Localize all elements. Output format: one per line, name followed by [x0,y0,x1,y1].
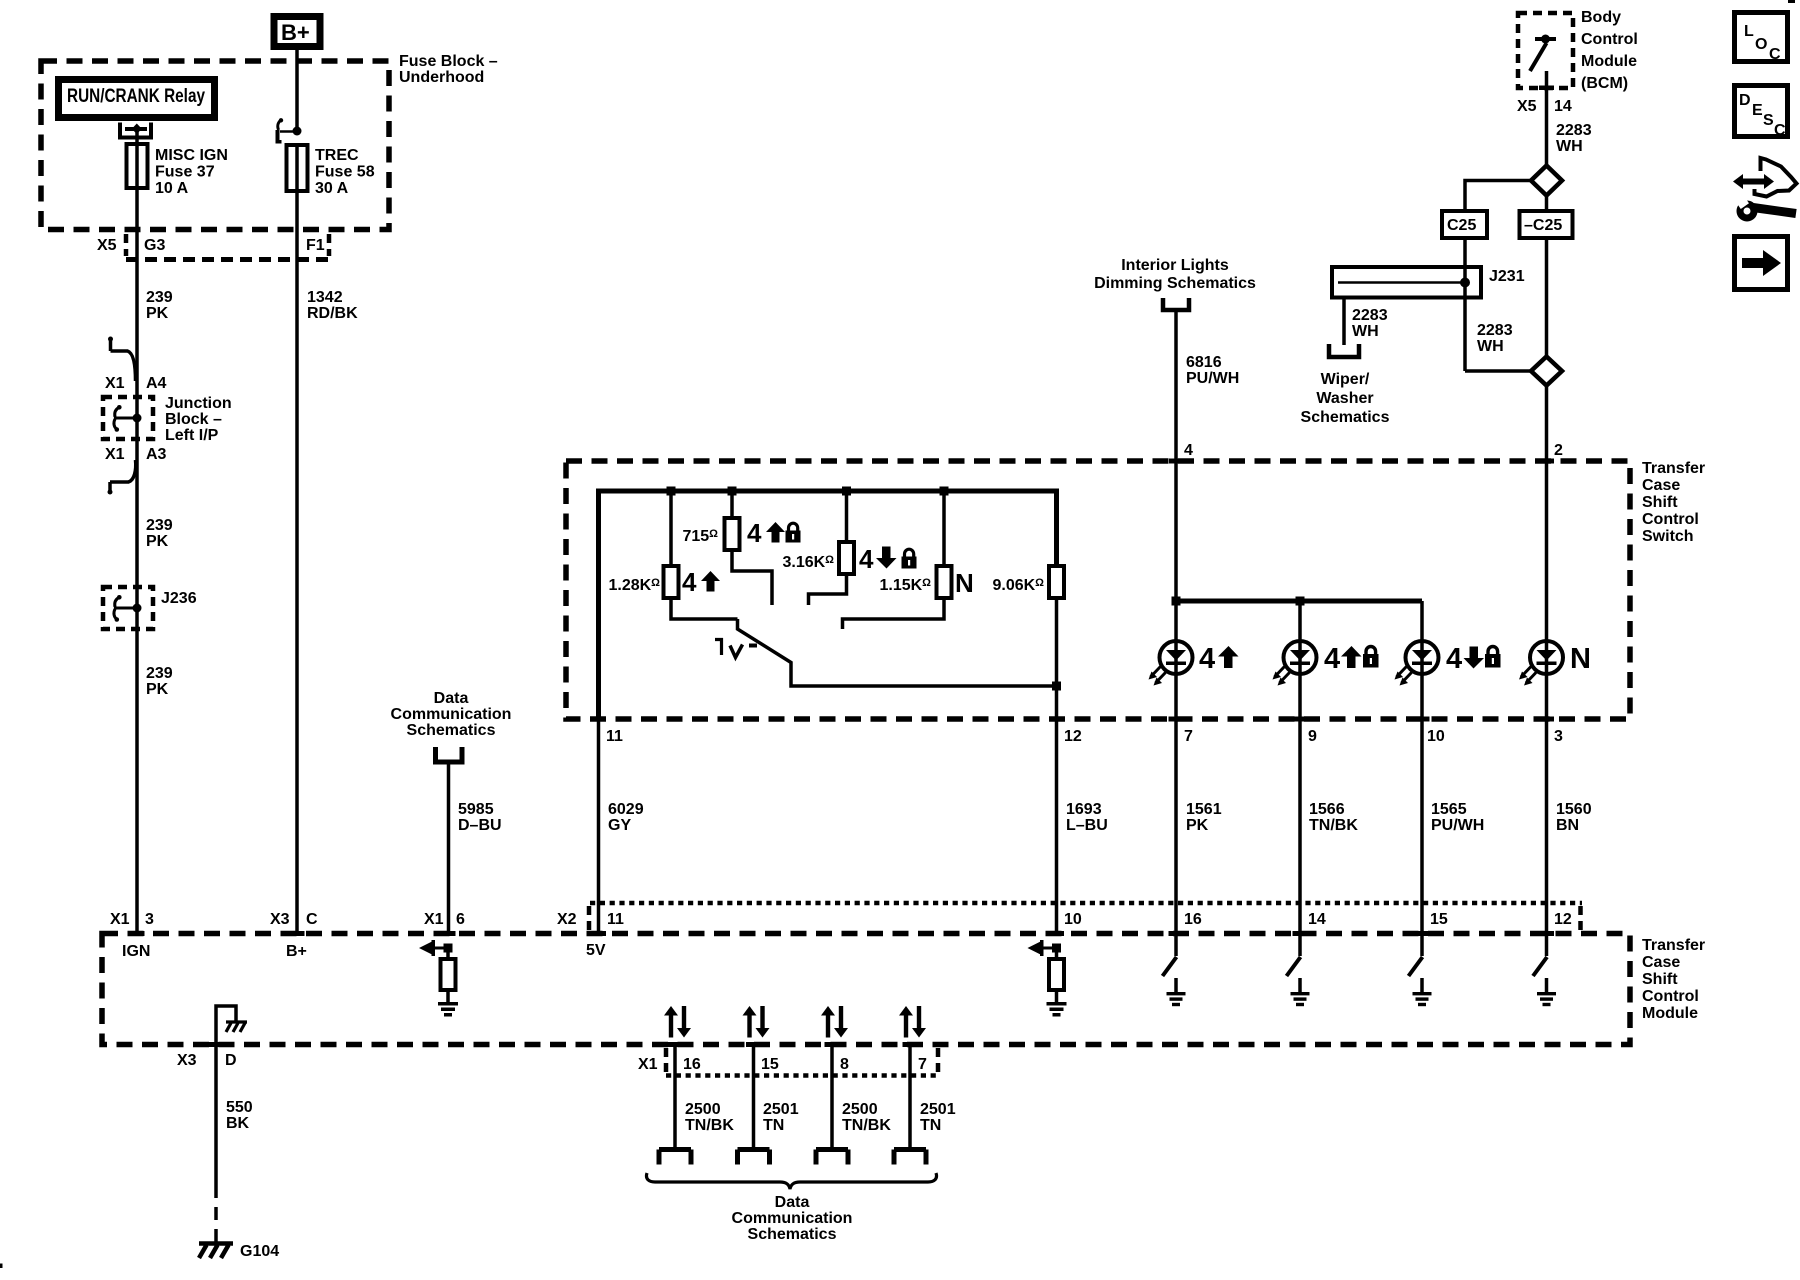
wire below 9.06K [1055,598,1059,686]
svg-text:O: O [1755,36,1767,53]
pin tick 2 [1539,459,1554,464]
splice J236 dashed box [103,587,153,629]
svg-text:Fuse Block –: Fuse Block – [399,53,498,70]
node dot R4 [940,487,949,496]
wire: 550 BK ground wire [214,1044,218,1185]
svg-text:Control: Control [1642,988,1699,1005]
node dot wiper output [1052,682,1061,691]
svg-text:Block –: Block – [165,411,222,428]
svg-text:A4: A4 [146,375,167,392]
svg-text:4: 4 [1199,643,1215,675]
svg-text:16: 16 [1184,911,1202,928]
svg-text:MISC IGN: MISC IGN [155,147,228,164]
wire: B+ down to fuse block [295,50,299,131]
svg-text:Washer: Washer [1316,390,1373,407]
corner artifact mark bottom-left [0,1264,3,1269]
svg-text:7: 7 [918,1056,927,1073]
tick right of pin 7 [936,1048,941,1074]
fuse F58 TREC [287,145,308,191]
svg-text:12: 12 [1064,728,1082,745]
resistor bus top [599,491,1057,719]
BCM dashed box [1518,13,1573,88]
pin tick X2-10 [1049,931,1064,936]
branch wire to R 715 [730,491,734,518]
X1 connector sub-line (bottom) [666,1073,938,1078]
resistor 1.28K [664,566,679,598]
svg-text:TN: TN [763,1117,784,1134]
svg-text:Wiper/: Wiper/ [1321,371,1370,388]
svg-text:Switch: Switch [1642,528,1694,545]
svg-text:2: 2 [1554,442,1563,459]
pin tick 4 [1169,459,1184,464]
svg-text:3: 3 [145,911,154,928]
relay RUN/CRANK [59,80,215,118]
svg-text:239: 239 [146,517,173,534]
resistor 1.15K [937,566,952,598]
pin tick 12 [1049,717,1064,722]
pin tick 3 [1539,717,1554,722]
svg-text:11: 11 [607,911,624,928]
wire: J231 tap down to wiper/washer [1342,297,1346,345]
svg-text:14: 14 [1308,911,1326,928]
icon arrow box [1735,237,1788,290]
svg-text:X1: X1 [110,911,130,928]
wire: data comm to module X1-6 [447,762,451,935]
svg-text:X1: X1 [638,1056,658,1073]
svg-text:Module: Module [1642,1005,1698,1022]
svg-text:Data: Data [434,690,469,707]
svg-text:D–BU: D–BU [458,817,502,834]
svg-text:1560: 1560 [1556,801,1592,818]
TREC feed terminal hook [276,118,302,143]
svg-text:X5: X5 [1517,98,1537,115]
pin tick X2-14 [1293,931,1308,936]
svg-text:D: D [225,1052,237,1069]
svg-text:Body: Body [1581,9,1621,26]
signal ground (1693 internal) [1047,1002,1067,1017]
data wire 1 (2500 TN/BK) [659,1006,691,1165]
connector -C25 [1520,211,1573,238]
svg-text:10: 10 [1064,911,1082,928]
node dot LED bus left [1172,597,1181,606]
pin tick X2-12 [1539,931,1554,936]
svg-text:9: 9 [1308,728,1317,745]
BCM internal switch [1530,35,1556,72]
wire: C25 run to lower diamond [1465,369,1531,373]
svg-text:2501: 2501 [763,1101,799,1118]
svg-text:X1: X1 [105,375,125,392]
svg-text:16: 16 [683,1056,701,1073]
svg-text:X1: X1 [105,446,125,463]
svg-text:TREC: TREC [315,147,359,164]
pin tick X1-15 bottom [746,1042,761,1047]
svg-text:BK: BK [226,1115,250,1132]
icon pointer/wrench [1733,158,1797,218]
svg-text:Control: Control [1581,31,1638,48]
svg-text:WH: WH [1477,338,1504,355]
brace (data communication group) [646,1173,936,1189]
driver switch + ground (1566) [1287,935,1310,1006]
svg-text:PK: PK [146,681,169,698]
corner artifact mark top-right [1788,0,1795,3]
svg-text:4: 4 [1324,643,1340,675]
LED indicator 4-down-lock [1395,641,1439,686]
svg-text:1566: 1566 [1309,801,1345,818]
svg-text:Left I/P: Left I/P [165,427,219,444]
svg-text:8: 8 [840,1056,849,1073]
svg-text:RUN/CRANK Relay: RUN/CRANK Relay [67,86,205,107]
driver switch + ground (1565) [1409,935,1432,1006]
svg-text:–C25: –C25 [1524,217,1562,234]
svg-text:F1: F1 [306,237,325,254]
svg-text:IGN: IGN [122,943,150,960]
driver switch + ground (1561) [1163,935,1186,1006]
ground G104 [199,1244,233,1259]
off-page bracket (data comm) [436,747,463,762]
pin tick 11 [591,717,606,722]
svg-text:E: E [1752,102,1763,119]
svg-text:Transfer: Transfer [1642,937,1705,954]
svg-text:4: 4 [682,567,697,597]
svg-text:N: N [1570,643,1591,675]
svg-text:4: 4 [1446,643,1462,675]
contact wire 715 (4-up-lock position) [732,550,772,605]
pin tick X1-8 bottom [825,1042,840,1047]
svg-text:J231: J231 [1489,268,1525,285]
svg-text:1561: 1561 [1186,801,1222,818]
relay output terminal bracket [118,123,153,140]
resistor 9.06K [1049,566,1064,598]
svg-text:GY: GY [608,817,631,834]
branch wire to R 3.16K [845,491,849,542]
wire: diamond down to -C25 [1545,196,1549,212]
svg-text:Transfer: Transfer [1642,460,1705,477]
pin tick 10 [1415,717,1430,722]
dashed continuation of ground wire [214,1185,218,1243]
LED indicator 4-up [1149,641,1193,686]
svg-text:Fuse 58: Fuse 58 [315,164,375,181]
splice diamond (top) [1531,166,1562,196]
driver switch + ground (1560) [1533,935,1556,1006]
svg-text:11: 11 [606,728,623,745]
svg-text:Underhood: Underhood [399,69,484,86]
off-page bracket (wiper/washer) [1329,344,1359,357]
wire: wiper output to pin 12 [1055,686,1059,935]
svg-text:TN: TN [920,1117,941,1134]
pull-up resistor on 5985 line: arrow to 5V [419,940,453,956]
svg-text:Dimming Schematics: Dimming Schematics [1094,275,1256,292]
icon DESC [1735,86,1788,140]
icon LOC [1735,13,1788,64]
svg-text:10 A: 10 A [155,180,189,197]
svg-text:PK: PK [1186,817,1209,834]
pin tick X2-16 [1169,931,1184,936]
svg-text:(BCM): (BCM) [1581,75,1628,92]
svg-text:Schematics: Schematics [1301,409,1390,426]
svg-text:Shift: Shift [1642,971,1678,988]
svg-text:Interior Lights: Interior Lights [1121,257,1229,274]
pin tick X1-6 [441,931,456,936]
svg-text:Control: Control [1642,511,1699,528]
svg-text:X3: X3 [270,911,290,928]
svg-text:2500: 2500 [842,1101,878,1118]
connector hook X1-A3 [108,460,136,495]
svg-text:G104: G104 [240,1243,279,1260]
svg-text:TN/BK: TN/BK [685,1117,734,1134]
svg-text:Shift: Shift [1642,494,1678,511]
svg-text:Case: Case [1642,954,1680,971]
svg-text:239: 239 [146,289,173,306]
svg-text:6: 6 [456,911,465,928]
resistor 3.16K [839,542,854,574]
wire: diamond to switch pin 2 [1545,386,1549,602]
branch wire to R 1.15K [942,491,946,566]
svg-text:WH: WH [1556,138,1583,155]
svg-text:5V: 5V [586,942,606,959]
resistor (1693 internal) [1049,959,1064,990]
wire: diamond left branch to C25 [1465,181,1531,212]
svg-text:2283: 2283 [1556,122,1592,139]
splice pack J231 [1332,267,1481,298]
svg-text:D: D [1739,92,1751,109]
data wire 3 (2500 TN/BK) [816,1006,848,1165]
svg-text:15: 15 [761,1056,779,1073]
pin tick X2-15 [1415,931,1430,936]
pin tick X1-16 bottom [668,1042,683,1047]
pin tick X2-11 [591,931,606,936]
module bottom pin tick (X3-D) [209,1042,224,1047]
svg-text:C: C [1774,122,1786,139]
LED bus inside switch [1176,599,1422,604]
X2 dotted connector line [590,901,1582,906]
svg-text:X1: X1 [424,911,444,928]
junction block left I/P dashed box [103,397,153,439]
svg-text:5985: 5985 [458,801,494,818]
wire below 1.28K to wiper common [671,598,738,619]
X1 tick (bottom left) [664,1048,669,1074]
switch dashed box [566,461,1630,719]
X2 right tick [1578,906,1583,932]
svg-text:C: C [306,911,318,928]
resistor (5985 internal) [441,959,456,990]
svg-text:2501: 2501 [920,1101,956,1118]
data wire 4 (2501 TN) [894,1006,926,1165]
wire LED3 column [1420,601,1424,935]
svg-text:N: N [955,568,974,598]
contact wire 3.16K (4-down-lock position) [809,574,847,605]
svg-text:12: 12 [1554,911,1572,928]
data wire 2 (2501 TN) [738,1006,770,1165]
wire: fuse 58 to module (B+ wire) [295,191,299,935]
wire: interior lights to switch pin 4 [1174,310,1178,601]
pin tick X1-7 bottom [903,1042,918,1047]
svg-text:Case: Case [1642,477,1680,494]
svg-text:PU/WH: PU/WH [1431,817,1484,834]
junction block terminal symbol [114,405,142,432]
svg-text:30 A: 30 A [315,180,349,197]
svg-text:B+: B+ [281,20,310,45]
svg-text:BN: BN [1556,817,1579,834]
svg-text:C25: C25 [1447,217,1476,234]
svg-text:L–BU: L–BU [1066,817,1108,834]
svg-text:10: 10 [1427,728,1445,745]
resistor 715 [725,518,740,550]
J236 terminal symbol [114,595,142,622]
wire LED4 column [1545,601,1549,935]
svg-text:C: C [1769,46,1781,63]
svg-text:WH: WH [1352,323,1379,340]
svg-text:Data: Data [775,1194,810,1211]
svg-text:Module: Module [1581,53,1637,70]
wire: fuse 37 to module (IGN wire upper) [135,188,139,935]
svg-text:Schematics: Schematics [748,1226,837,1243]
signal ground (5985 internal) [438,1002,458,1017]
svg-text:15: 15 [1430,911,1448,928]
contact wire 1.15K (N position) [843,598,945,629]
wire: C25 down through J231 [1463,238,1467,371]
svg-text:6029: 6029 [608,801,644,818]
pin tick 9 [1293,717,1308,722]
svg-text:L: L [1744,23,1754,40]
fuse block underhood dashed box [41,61,389,230]
svg-text:A3: A3 [146,446,167,463]
branch wire to R 1.28K [669,491,673,566]
node dot LED bus mid [1296,597,1305,606]
svg-text:2500: 2500 [685,1101,721,1118]
svg-text:Junction: Junction [165,395,232,412]
svg-text:TN/BK: TN/BK [842,1117,891,1134]
svg-text:J236: J236 [161,590,197,607]
internal ground (X3-D): wire and chassis mark [216,1006,247,1044]
connector bottom line under fuse block [126,257,333,262]
connector F1 tick [327,234,332,256]
pull-up resistor on 1693 line: arrow [1028,940,1062,956]
pin tick X1-3 [130,931,145,936]
connector hook X1-A4 [108,337,136,382]
svg-text:X3: X3 [177,1052,197,1069]
svg-text:PK: PK [146,533,169,550]
momentary return symbol [715,638,757,658]
battery terminal B+ [274,17,320,47]
svg-text:2283: 2283 [1352,307,1388,324]
svg-text:550: 550 [226,1099,253,1116]
svg-text:1565: 1565 [1431,801,1467,818]
pin tick X3-C [290,931,305,936]
module dashed box [102,934,1630,1045]
svg-text:3: 3 [1554,728,1563,745]
LED indicator N [1519,641,1563,686]
off-page bracket (interior lights) [1163,298,1189,310]
pin tick 7 [1169,717,1184,722]
switch wiper blade [738,619,1057,686]
svg-text:G3: G3 [144,237,165,254]
wire: relay to fuse 37 [135,131,139,146]
svg-text:B+: B+ [286,943,307,960]
pin tick BCM [1539,86,1554,91]
node dot R3 [842,487,851,496]
wire: BCM to diamond [1545,71,1549,166]
svg-text:239: 239 [146,665,173,682]
connector X5 tick [124,234,129,256]
svg-text:S: S [1763,112,1774,129]
LED indicator 4-up-lock [1273,641,1317,686]
svg-text:TN/BK: TN/BK [1309,817,1358,834]
svg-text:1693: 1693 [1066,801,1102,818]
node dot R2 [728,487,737,496]
wire: pin 11 down from bus [597,719,601,935]
splice diamond (bottom) [1531,357,1562,386]
svg-text:X2: X2 [557,911,577,928]
node dot R1 [667,487,676,496]
svg-text:2283: 2283 [1477,322,1513,339]
svg-text:14: 14 [1554,98,1572,115]
svg-text:4: 4 [859,544,874,574]
svg-text:Communication: Communication [732,1210,853,1227]
svg-text:4: 4 [1184,442,1193,459]
svg-text:7: 7 [1184,728,1193,745]
svg-text:4: 4 [747,518,762,548]
wire LED2 column [1298,601,1302,935]
svg-text:Schematics: Schematics [407,722,496,739]
wire LED1 column [1174,601,1178,935]
svg-text:Communication: Communication [391,706,512,723]
wire: -C25 down to lower diamond [1545,238,1549,357]
svg-text:6816: 6816 [1186,354,1222,371]
svg-text:PK: PK [146,305,169,322]
svg-text:PU/WH: PU/WH [1186,370,1239,387]
connector C25 [1442,211,1487,238]
svg-text:X5: X5 [97,237,117,254]
X2 left tick [587,906,592,932]
svg-text:1342: 1342 [307,289,343,306]
svg-text:RD/BK: RD/BK [307,305,358,322]
fuse F37 MISC IGN [127,144,148,188]
svg-text:Fuse 37: Fuse 37 [155,164,215,181]
